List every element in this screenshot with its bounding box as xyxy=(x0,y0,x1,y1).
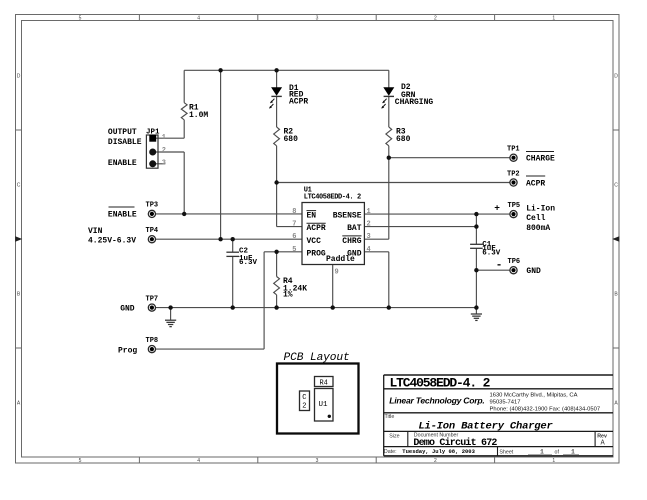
svg-text:CHARGE: CHARGE xyxy=(526,154,555,163)
svg-text:Tuesday, July 08, 2003: Tuesday, July 08, 2003 xyxy=(402,448,475,455)
svg-text:Cell: Cell xyxy=(526,214,545,223)
svg-text:TP4: TP4 xyxy=(146,227,159,235)
svg-text:C: C xyxy=(302,394,306,402)
svg-text:OUTPUT: OUTPUT xyxy=(108,128,137,137)
svg-text:Phone: (408)432-1900 Fax: (408: Phone: (408)432-1900 Fax: (408)434-0507 xyxy=(490,407,601,413)
svg-text:ACPR: ACPR xyxy=(526,180,545,189)
svg-text:6: 6 xyxy=(292,233,296,241)
svg-text:800mA: 800mA xyxy=(526,224,550,233)
svg-text:Paddle: Paddle xyxy=(326,255,355,264)
svg-text:of: of xyxy=(555,449,560,455)
svg-text:5: 5 xyxy=(292,246,296,254)
svg-text:9: 9 xyxy=(335,269,339,277)
svg-text:TP3: TP3 xyxy=(146,202,159,210)
svg-text:LTC4058EDD-4. 2: LTC4058EDD-4. 2 xyxy=(304,194,361,202)
svg-text:C: C xyxy=(17,182,21,188)
svg-text:VIN: VIN xyxy=(88,227,103,236)
svg-text:ACPR: ACPR xyxy=(289,98,308,107)
svg-text:BSENSE: BSENSE xyxy=(333,212,362,221)
svg-text:2: 2 xyxy=(434,458,437,464)
svg-text:Linear Technology Corp.: Linear Technology Corp. xyxy=(389,396,484,406)
svg-text:TP1: TP1 xyxy=(507,146,520,154)
svg-text:BAT: BAT xyxy=(347,224,362,233)
svg-text:4: 4 xyxy=(367,246,371,254)
svg-text:R4: R4 xyxy=(319,379,327,387)
svg-text:EN: EN xyxy=(307,212,317,221)
svg-text:680: 680 xyxy=(396,135,411,144)
svg-text:ENABLE: ENABLE xyxy=(108,211,137,220)
svg-text:GND: GND xyxy=(120,305,135,314)
svg-text:CHARGING: CHARGING xyxy=(395,98,434,107)
svg-text:3: 3 xyxy=(367,233,371,241)
svg-text:TP6: TP6 xyxy=(508,258,521,266)
svg-text:6.3V: 6.3V xyxy=(482,250,501,258)
svg-text:D: D xyxy=(614,73,618,79)
svg-text:1: 1 xyxy=(162,134,166,142)
svg-text:1: 1 xyxy=(552,15,555,21)
svg-text:5: 5 xyxy=(79,458,82,464)
svg-text:GND: GND xyxy=(526,267,541,276)
svg-text:4: 4 xyxy=(197,458,200,464)
svg-text:Title: Title xyxy=(385,414,395,420)
svg-text:VCC: VCC xyxy=(307,237,322,246)
svg-text:6.3V: 6.3V xyxy=(239,259,258,267)
svg-text:1: 1 xyxy=(367,208,371,216)
svg-text:U1: U1 xyxy=(319,401,329,409)
svg-text:ACPR: ACPR xyxy=(307,224,326,233)
svg-text:1630 McCarthy Blvd., Milpitas,: 1630 McCarthy Blvd., Milpitas, CA xyxy=(490,392,578,398)
svg-text:1: 1 xyxy=(571,448,575,455)
svg-text:DISABLE: DISABLE xyxy=(108,138,142,147)
svg-text:TP8: TP8 xyxy=(146,337,159,345)
svg-text:680: 680 xyxy=(284,135,299,144)
svg-text:1%: 1% xyxy=(283,290,293,299)
svg-text:TP2: TP2 xyxy=(507,171,520,179)
svg-text:2: 2 xyxy=(302,403,306,411)
svg-text:5: 5 xyxy=(79,15,82,21)
svg-text:-: - xyxy=(496,260,503,272)
svg-text:Prog: Prog xyxy=(118,346,137,355)
svg-text:Size: Size xyxy=(389,434,399,440)
svg-text:Li-Ion Battery Charger: Li-Ion Battery Charger xyxy=(418,420,553,432)
svg-text:2: 2 xyxy=(434,15,437,21)
svg-text:1: 1 xyxy=(552,458,555,464)
svg-text:+: + xyxy=(494,202,500,213)
svg-text:2: 2 xyxy=(162,147,166,155)
svg-text:4: 4 xyxy=(197,15,200,21)
svg-text:TP7: TP7 xyxy=(146,295,159,303)
svg-text:3: 3 xyxy=(316,15,319,21)
svg-text:1.0M: 1.0M xyxy=(189,111,208,120)
svg-text:CHRG: CHRG xyxy=(342,237,361,246)
svg-text:LTC4058EDD-4. 2: LTC4058EDD-4. 2 xyxy=(390,376,491,391)
svg-text:D: D xyxy=(17,73,21,79)
svg-text:7: 7 xyxy=(292,221,296,229)
svg-text:95035-7417: 95035-7417 xyxy=(490,400,521,406)
svg-text:Sheet: Sheet xyxy=(499,449,513,455)
svg-text:TP5: TP5 xyxy=(508,202,521,210)
svg-text:1: 1 xyxy=(540,448,544,455)
svg-text:8: 8 xyxy=(292,208,296,216)
svg-text:Li-Ion: Li-Ion xyxy=(526,204,555,213)
svg-text:Rev: Rev xyxy=(597,433,607,439)
svg-text:Date:: Date: xyxy=(384,449,397,455)
svg-text:3: 3 xyxy=(316,458,319,464)
svg-text:C: C xyxy=(614,182,618,188)
svg-text:4.25V-6.3V: 4.25V-6.3V xyxy=(88,236,136,245)
svg-text:JP1: JP1 xyxy=(146,129,160,137)
svg-text:ENABLE: ENABLE xyxy=(108,159,137,168)
svg-text:3: 3 xyxy=(162,159,166,167)
svg-text:PROG: PROG xyxy=(307,249,326,258)
svg-text:2: 2 xyxy=(367,221,371,229)
